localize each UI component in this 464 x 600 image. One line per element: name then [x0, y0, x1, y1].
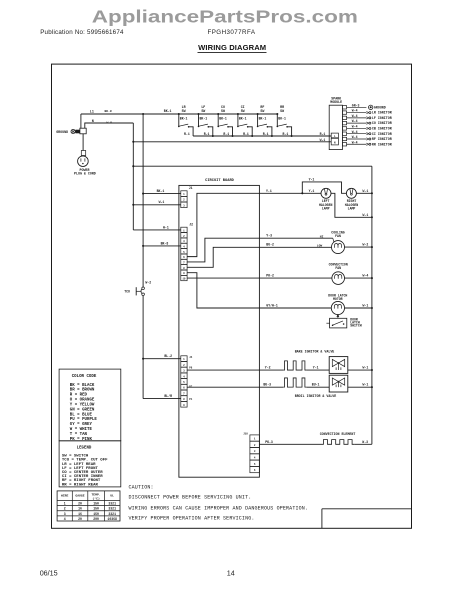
svg-text:W-1: W-1: [320, 138, 326, 142]
svg-text:150: 150: [93, 502, 99, 506]
svg-text:HI: HI: [320, 235, 324, 238]
svg-text:T = TAN: T = TAN: [70, 433, 88, 437]
bake gas valve: [329, 357, 348, 374]
svg-text:W-4: W-4: [352, 130, 358, 134]
wire cord down to plug: [82, 134, 84, 151]
board trace J2-8 to BU-2: [187, 247, 259, 267]
wire plug box to L1 bus: [80, 114, 82, 128]
junction L1 / BK-1 to J1: [142, 193, 144, 195]
svg-text:L1: L1: [90, 110, 94, 114]
svg-text:PK = PINK: PK = PINK: [70, 438, 93, 442]
svg-text:UL: UL: [110, 493, 114, 497]
svg-text:WIRING ERRORS CAN CAUSE IMPROP: WIRING ERRORS CAN CAUSE IMPROPER AND DAN…: [129, 505, 309, 511]
svg-text:GN-3: GN-3: [352, 103, 360, 107]
svg-text:R-1: R-1: [204, 132, 210, 136]
svg-text:R = RED: R = RED: [70, 394, 88, 398]
color code title and entries: [70, 375, 98, 442]
board trace J2-7 to Y-3: [187, 238, 259, 262]
svg-text:CONVECTION ELEMENT: CONVECTION ELEMENT: [320, 432, 356, 436]
svg-text:2: 2: [64, 507, 66, 511]
svg-text:R-1: R-1: [263, 132, 269, 136]
wire neutral rail top run: [133, 165, 372, 167]
svg-text:RR IGNITOR: RR IGNITOR: [372, 142, 392, 146]
spark module input terminal L: [331, 133, 338, 138]
wire BL-2 to lower block pin1: [143, 358, 181, 360]
svg-text:W-2: W-2: [363, 243, 369, 247]
svg-text:W-1: W-1: [363, 189, 369, 193]
svg-text:FAN: FAN: [335, 266, 341, 270]
wire BK-8 to circuit board J2 pin4: [143, 245, 181, 247]
svg-text:W-8: W-8: [107, 121, 113, 124]
svg-text:SW: SW: [182, 109, 186, 113]
color code box: [59, 369, 121, 441]
svg-text:GY/W-1: GY/W-1: [266, 303, 278, 307]
wire BK-1 to circuit board J1 pin1: [143, 193, 181, 195]
spark module pin + lf ignitor: [342, 114, 391, 120]
svg-text:W-4: W-4: [352, 114, 358, 118]
svg-text:R-1: R-1: [223, 132, 229, 136]
svg-text:AppliancePartsPros.com: AppliancePartsPros.com: [92, 7, 358, 26]
svg-text:P1: P1: [189, 398, 193, 401]
svg-text:3321: 3321: [108, 507, 116, 511]
svg-text:J2: J2: [189, 223, 193, 227]
left halogen lamp: [321, 188, 331, 198]
svg-text:GY = GREY: GY = GREY: [70, 423, 93, 427]
svg-text:W-4: W-4: [352, 109, 358, 113]
svg-text:W-4: W-4: [352, 119, 358, 123]
wire bake valve to neutral rail: [348, 369, 372, 371]
ground symbol at plug: [71, 129, 75, 133]
svg-text:J10: J10: [243, 433, 248, 436]
board trace J2-6 to Y-1: [187, 193, 259, 256]
wire W-1 to circuit board J1 pin3: [133, 204, 181, 206]
board trace J2-9 to GY/W-1: [187, 273, 259, 308]
svg-text:3: 3: [64, 512, 66, 516]
svg-text:4: 4: [64, 517, 66, 521]
svg-text:W-3: W-3: [362, 440, 368, 444]
svg-text:J1: J1: [189, 186, 193, 190]
junction BL-2 branch: [142, 358, 144, 360]
switch LR SW (burner switch): [178, 105, 193, 136]
svg-text:W-2: W-2: [145, 280, 151, 284]
svg-text:BK-1: BK-1: [180, 116, 188, 120]
svg-text:N: N: [92, 120, 94, 124]
switch RF SW (burner switch): [257, 105, 273, 137]
wire GY/W-1 to door latch motor: [259, 307, 331, 309]
svg-text:PU = PURPLE: PU = PURPLE: [70, 418, 98, 422]
svg-text:GN = GREEN: GN = GREEN: [70, 408, 95, 412]
wire N from plug: [85, 123, 134, 128]
door latch switch: [326, 314, 361, 328]
wire door latch motor to neutral rail: [345, 307, 372, 309]
wire Y-2 bake feed: [187, 369, 283, 371]
switch RR SW (burner switch): [276, 105, 292, 137]
svg-text:W-1: W-1: [363, 366, 369, 370]
svg-text:SWITCH: SWITCH: [350, 323, 362, 327]
svg-text:Y-1: Y-1: [309, 189, 315, 193]
svg-text:BK-1: BK-1: [278, 116, 286, 120]
svg-text:BK-1: BK-1: [239, 116, 247, 120]
legend box: [59, 441, 121, 487]
svg-text:BK-8: BK-8: [161, 241, 169, 245]
svg-text:BK-1: BK-1: [200, 116, 208, 120]
svg-text:LAMP: LAMP: [348, 207, 356, 211]
svg-text:16: 16: [78, 507, 82, 511]
svg-text:BL/R: BL/R: [164, 394, 172, 398]
wire gauge table: [57, 491, 120, 521]
wire W-1 neutral to spark module N: [133, 141, 331, 143]
svg-text:SW: SW: [260, 109, 264, 113]
svg-text:BK-1: BK-1: [164, 109, 172, 113]
svg-text:CAUTION:: CAUTION:: [129, 484, 154, 490]
svg-text:PK-3: PK-3: [265, 440, 273, 444]
svg-text:BR = BROWN: BR = BROWN: [70, 389, 95, 393]
svg-text:BU-1: BU-1: [312, 383, 320, 387]
bottom right title box: [322, 508, 412, 510]
wire PK-3 to convection element: [259, 443, 322, 445]
junction N bus / J1 pin3: [132, 204, 134, 206]
svg-text:10: 10: [182, 278, 186, 281]
svg-text:SW: SW: [201, 109, 205, 113]
svg-text:COLOR CODE: COLOR CODE: [72, 375, 97, 379]
wire cooling fan to neutral rail: [345, 246, 372, 248]
svg-text:WIRING DIAGRAM: WIRING DIAGRAM: [198, 43, 266, 52]
wire L1 bus vertical lower (below TCO): [142, 296, 144, 399]
svg-text:O = ORANGE: O = ORANGE: [70, 399, 95, 403]
wire Y-1 loop over left lamp: [302, 182, 346, 193]
svg-text:20: 20: [78, 502, 82, 506]
svg-text:CO IGNITOR: CO IGNITOR: [372, 121, 392, 125]
svg-text:W-1: W-1: [159, 200, 165, 204]
svg-text:Publication No: 5995661674: Publication No: 5995661674: [40, 29, 124, 36]
svg-text:BROIL IGNITOR & VALVE: BROIL IGNITOR & VALVE: [295, 394, 337, 398]
spark module pin + ground electrode: [342, 103, 385, 109]
wire Y-3 HI to cooling fan: [259, 237, 332, 239]
svg-text:LR IGNITOR: LR IGNITOR: [372, 111, 392, 115]
svg-text:Y-1: Y-1: [313, 366, 319, 370]
svg-text:20: 20: [78, 517, 82, 521]
svg-text:150: 150: [93, 512, 99, 516]
wire broil valve to neutral rail: [348, 386, 372, 388]
wire L1 bus vertical upper: [142, 114, 144, 287]
power cord strain relief box: [80, 128, 86, 134]
svg-text:BK-1: BK-1: [259, 116, 267, 120]
broil ignitor element: [283, 378, 306, 387]
svg-text:BL-2: BL-2: [164, 354, 172, 358]
svg-text:WIRE: WIRE: [61, 493, 69, 497]
svg-text:W-4: W-4: [352, 125, 358, 129]
wire neutral rail right vertical: [371, 166, 373, 444]
svg-text:SW: SW: [241, 109, 245, 113]
svg-text:GROUND: GROUND: [374, 105, 386, 109]
connector J2: [181, 223, 193, 281]
svg-text:Y = YELLOW: Y = YELLOW: [70, 403, 95, 407]
svg-text:1: 1: [64, 502, 66, 506]
thermal cut off TCO: [124, 280, 151, 295]
svg-text:3321: 3321: [108, 512, 116, 516]
svg-text:P8: P8: [189, 366, 193, 369]
svg-text:RR = RIGHT REAR: RR = RIGHT REAR: [62, 483, 99, 487]
svg-text:Y-3: Y-3: [266, 234, 272, 238]
svg-text:W-4: W-4: [352, 135, 358, 139]
diagram border frame: [52, 64, 412, 528]
connector J4 lower block: [181, 356, 193, 407]
svg-text:W-1: W-1: [363, 383, 369, 387]
svg-text:16: 16: [78, 512, 82, 516]
spark module box: [329, 105, 342, 149]
svg-text:Y-2: Y-2: [265, 366, 271, 370]
spark module pin + ci ignitor: [342, 130, 391, 136]
svg-text:BU-2: BU-2: [266, 243, 274, 247]
wire convection element to neutral rail: [354, 443, 372, 445]
wire Y-1 to lamps: [259, 192, 321, 194]
svg-text:LOW: LOW: [317, 244, 323, 247]
wire L1 top bus: [81, 113, 277, 115]
svg-text:SW: SW: [221, 109, 225, 113]
svg-text:BK-8: BK-8: [105, 110, 112, 113]
svg-text:SW: SW: [280, 109, 284, 113]
svg-text:(°C): (°C): [92, 496, 100, 500]
svg-text:200: 200: [93, 517, 99, 521]
svg-text:CI IGNITOR: CI IGNITOR: [372, 132, 392, 136]
junction N bus / neutral rail: [132, 165, 134, 167]
svg-text:TCO: TCO: [124, 289, 130, 293]
svg-text:CB IGNITOR: CB IGNITOR: [372, 127, 392, 131]
wire N bus vertical: [132, 123, 134, 230]
svg-text:LEGEND: LEGEND: [77, 447, 92, 451]
spark module pin + rf ignitor: [342, 135, 391, 141]
wire broil ignitor to valve: [307, 386, 330, 388]
svg-text:BK = BLACK: BK = BLACK: [70, 384, 95, 388]
svg-text:W = WHITE: W = WHITE: [70, 428, 93, 432]
right halogen lamp: [346, 188, 356, 198]
svg-text:FPGH3077RFA: FPGH3077RFA: [208, 29, 256, 36]
svg-text:GAUGE: GAUGE: [75, 493, 84, 497]
connector J1: [181, 186, 193, 207]
svg-text:W-4: W-4: [352, 140, 358, 144]
svg-text:R-1: R-1: [243, 132, 249, 136]
svg-text:W-1: W-1: [163, 225, 169, 229]
svg-text:Y-1: Y-1: [309, 178, 315, 182]
bake ignitor element: [283, 361, 306, 370]
wire W-1 to circuit board J2 pin1: [133, 229, 181, 231]
legend title and entries: [62, 447, 108, 488]
wire bake ignitor to valve: [307, 369, 330, 371]
svg-text:Y-1: Y-1: [266, 189, 272, 193]
convection element: [322, 440, 354, 445]
svg-text:10368: 10368: [107, 517, 117, 521]
svg-text:LF IGNITOR: LF IGNITOR: [372, 116, 392, 120]
board trace J2-10 to PK-2: [187, 277, 259, 279]
cooling fan motor: [331, 230, 344, 253]
svg-text:CIRCUIT BOARD: CIRCUIT BOARD: [205, 179, 235, 183]
svg-text:W-1: W-1: [363, 213, 369, 217]
svg-text:W-1: W-1: [363, 304, 369, 308]
svg-text:BU-3: BU-3: [263, 383, 271, 387]
svg-text:R-1: R-1: [320, 132, 326, 136]
svg-text:GROUND: GROUND: [56, 130, 68, 134]
wire R-1 bus from switches to spark module L: [193, 135, 331, 137]
switch LF SW (burner switch): [197, 105, 213, 137]
svg-text:RF IGNITOR: RF IGNITOR: [372, 137, 392, 141]
wire right lamp to neutral rail: [356, 192, 372, 194]
spark module pin + lr ignitor: [342, 109, 391, 115]
svg-text:06/15: 06/15: [40, 569, 58, 578]
svg-text:MODULE: MODULE: [330, 100, 342, 104]
spark module pin + cb ignitor: [342, 125, 391, 131]
svg-text:FAN: FAN: [335, 234, 341, 238]
svg-text:R-1: R-1: [184, 132, 190, 136]
wire PK-2 to convection fan: [259, 277, 332, 279]
junction lamp feed: [301, 192, 303, 194]
power plug symbol: [81, 151, 85, 156]
svg-text:MOTOR: MOTOR: [333, 297, 343, 301]
junction L1 / BK-8 to J2: [142, 245, 144, 247]
wire BU-3 broil feed: [187, 386, 283, 388]
junction L1 top: [142, 113, 144, 115]
switch CO SW (burner switch): [217, 105, 233, 137]
connector J10: [243, 433, 259, 473]
spark module pin + co ignitor: [342, 119, 391, 125]
svg-text:J4: J4: [189, 356, 193, 359]
svg-text:3321: 3321: [108, 502, 116, 506]
wire convection fan to neutral rail: [345, 277, 372, 279]
svg-text:BAKE IGNITOR & VALVE: BAKE IGNITOR & VALVE: [295, 349, 335, 353]
spark module input terminal N: [331, 138, 338, 145]
svg-text:14: 14: [227, 569, 235, 578]
svg-text:VERIFY PROPER OPERATION AFTER: VERIFY PROPER OPERATION AFTER SERVICING.: [129, 516, 255, 522]
door latch motor: [328, 294, 347, 315]
svg-text:BK-1: BK-1: [157, 189, 165, 193]
switch CI SW (burner switch): [237, 105, 253, 137]
svg-text:BK-1: BK-1: [219, 116, 227, 120]
svg-text:PK-2: PK-2: [266, 274, 274, 278]
junction N bus / spark W-1: [132, 141, 134, 143]
svg-text:150: 150: [93, 507, 99, 511]
convection fan motor: [329, 262, 348, 284]
svg-text:BL = BLUE: BL = BLUE: [70, 413, 93, 417]
circuit board box: [179, 185, 260, 477]
svg-text:W-4: W-4: [363, 274, 369, 278]
caution text block: [129, 484, 309, 521]
wire BU-2 LOW to cooling fan: [259, 246, 331, 248]
svg-text:DISCONNECT POWER BEFORE SERVIC: DISCONNECT POWER BEFORE SERVICING UNIT.: [129, 495, 252, 501]
spark module pin + rr ignitor: [342, 140, 391, 146]
wire left lamp return to neutral rail: [331, 193, 372, 217]
broil gas valve: [329, 375, 348, 392]
svg-text:R-1: R-1: [283, 132, 289, 136]
svg-text:PLUG & CORD: PLUG & CORD: [74, 172, 96, 176]
wire BL/R to lower block pin8: [143, 398, 181, 400]
svg-text:LAMP: LAMP: [322, 207, 330, 211]
